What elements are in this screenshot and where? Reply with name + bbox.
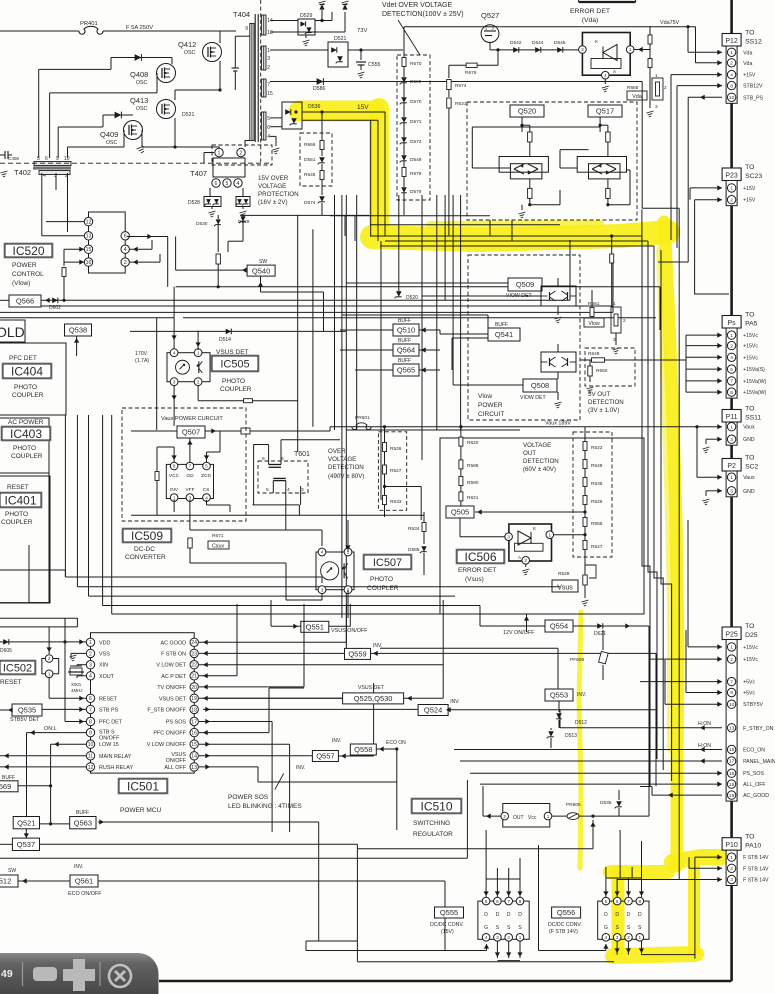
svg-text:2: 2 [623,318,626,323]
svg-text:IC507: IC507 [373,557,402,569]
svg-text:7: 7 [189,464,192,469]
svg-text:9: 9 [262,456,265,462]
svg-text:Q541: Q541 [495,330,513,339]
highlighted net wire [641,82,643,209]
svg-text:2: 2 [730,61,733,67]
svg-text:Q559: Q559 [348,650,366,659]
pin10 wire [51,743,86,745]
svg-text:D514: D514 [219,337,231,343]
svg-text:8: 8 [89,719,92,725]
svg-text:XOUT: XOUT [99,674,115,680]
svg-text:TO: TO [745,164,754,171]
IC502 box [0,660,36,675]
wire T407 left [204,152,214,154]
wire primary top [234,36,236,68]
highlight marker hook down [688,866,700,950]
svg-text:1: 1 [639,935,642,940]
svg-text:POWER MCU: POWER MCU [120,807,161,814]
svg-text:IC404: IC404 [11,364,43,378]
svg-text:PA5: PA5 [745,321,758,328]
T404 primary winding [250,23,254,140]
wire stub left Q566 [0,299,9,301]
IC501 pin 13 [190,763,198,771]
resistor R670 [402,58,406,67]
wire Q520 stub down [489,220,491,236]
svg-text:D528: D528 [188,200,200,206]
svg-text:R674: R674 [455,83,467,89]
svg-text:1: 1 [547,814,550,819]
svg-text:BUFF: BUFF [398,318,411,324]
T404 secondary winding 7-15 [261,79,266,97]
stair wire p23-ps [658,261,688,263]
svg-text:Q412: Q412 [178,40,196,49]
svg-text:K: K [533,526,536,531]
svg-text:+15Va(S): +15Va(S) [743,367,765,373]
svg-text:2: 2 [48,656,51,661]
svg-text:3: 3 [730,877,733,883]
wire Q412 drain [219,31,221,43]
wire verticals upper mid [297,215,299,452]
svg-text:COUPLER: COUPLER [1,519,33,526]
svg-text:Vlow: Vlow [478,393,492,400]
svg-text:D621: D621 [594,631,606,637]
svg-text:2: 2 [507,935,510,940]
svg-text:REGULATOR: REGULATOR [413,831,453,838]
svg-text:Q563: Q563 [74,818,92,827]
Q524 wires [203,708,418,710]
svg-text:Q510: Q510 [397,326,415,335]
IC509 bottom wires [173,500,175,512]
bottom long wires [642,954,695,956]
svg-text:LOW 15: LOW 15 [99,742,119,748]
svg-text:3: 3 [321,587,324,592]
svg-text:22: 22 [191,663,197,669]
wire to P12 pin2 [696,62,723,64]
svg-text:1: 1 [549,532,552,537]
ground near pin2 [71,652,86,654]
svg-text:COUPLER: COUPLER [220,386,252,393]
svg-text:23: 23 [191,651,197,657]
wire winding 4 ground [270,135,276,137]
svg-text:R628: R628 [558,571,570,577]
svg-text:F STB 14V: F STB 14V [743,866,769,872]
P12 connector [722,34,741,47]
IC501 pin 17 [190,717,198,725]
svg-text:4: 4 [237,181,240,187]
pin11 wire [0,755,86,757]
svg-text:STB_PS: STB_PS [743,95,763,101]
svg-text:INV.: INV. [450,699,459,705]
svg-text:V LOW ON/OFF: V LOW ON/OFF [147,742,187,748]
svg-text:1: 1 [48,671,51,676]
P25 wires [688,646,722,648]
zener D549 [401,155,407,161]
Ps connector [722,316,741,329]
resistor R533 [383,496,387,505]
svg-text:BUFF: BUFF [398,338,411,344]
Q558 out wire [379,746,384,751]
IC501 pin 22 [190,661,198,669]
error amp IC506 [509,524,552,561]
wire error amp out [634,49,650,51]
svg-text:5: 5 [205,464,208,469]
svg-text:Vaux: Vaux [743,425,755,431]
svg-text:ERROR DET: ERROR DET [458,567,496,574]
wire row 858 [0,857,467,859]
svg-text:2: 2 [492,27,494,31]
svg-text:ECO ON: ECO ON [386,740,406,746]
svg-text:19: 19 [191,696,197,702]
svg-text:(15V): (15V) [441,929,454,935]
svg-text:D535: D535 [600,800,612,806]
svg-text:10: 10 [729,95,735,101]
svg-text:Q525,Q530: Q525,Q530 [354,694,393,703]
svg-text:Vda75V: Vda75V [660,20,680,26]
svg-text:6: 6 [616,899,619,904]
svg-text:T407: T407 [190,169,207,178]
svg-text:AC GOOD: AC GOOD [161,640,187,646]
wire verticals mid-left [64,415,66,577]
svg-text:1: 1 [173,495,176,500]
resistor R527 [383,465,387,474]
svg-text:ALL OFF: ALL OFF [164,765,186,771]
svg-text:PHOTO: PHOTO [222,378,245,385]
svg-text:(Vsus): (Vsus) [465,576,484,583]
svg-text:19: 19 [729,793,735,799]
svg-text:D: D [638,912,642,918]
Q538 box [65,324,92,336]
Q508 pair [541,352,576,372]
svg-text:9: 9 [730,690,733,696]
svg-text:D574: D574 [304,200,316,206]
svg-text:569: 569 [0,782,11,791]
svg-text:1: 1 [730,186,733,192]
svg-text:Vda: Vda [632,94,642,100]
wires Vlow interconnect [346,282,508,284]
Vaux dashed box [122,408,246,521]
svg-text:VSUS DET: VSUS DET [159,696,187,702]
svg-text:4: 4 [730,72,733,78]
svg-text:8: 8 [730,390,733,396]
wire 12V row [380,647,558,649]
svg-text:D544: D544 [532,40,544,46]
svg-text:Q561: Q561 [75,877,93,886]
Q537 wires [0,843,12,845]
Vsus label [552,580,578,592]
svg-text:14: 14 [191,754,197,760]
svg-text:4: 4 [485,935,488,940]
IC501 label [118,778,168,794]
svg-text:21: 21 [191,674,197,680]
wires Q520 bottom [530,204,560,206]
svg-text:R526: R526 [591,499,603,505]
svg-text:+15Vc: +15Vc [743,645,758,651]
svg-text:D520: D520 [406,295,418,301]
svg-text:Vaux 189V: Vaux 189V [545,421,571,427]
svg-text:PF609: PF609 [570,657,584,663]
P10 connector [722,838,741,851]
wire gate stairs [38,69,40,158]
15V OVP dashed box [300,133,332,186]
pin8 wire [65,721,86,723]
svg-text:15: 15 [86,247,92,253]
svg-text:PFC ON/OFF: PFC ON/OFF [153,731,186,737]
svg-text:6: 6 [124,234,127,240]
svg-text:(60V ± 40V): (60V ± 40V) [523,466,556,473]
svg-text:17: 17 [191,719,197,725]
svg-text:16: 16 [191,730,197,736]
T404 secondary winding 14-13 [261,15,266,35]
svg-text:D579: D579 [410,189,422,195]
resistor R536 [583,478,587,487]
highlight marker band upper fringe [430,224,600,225]
wire to border [648,626,650,790]
svg-text:Q505: Q505 [451,508,469,517]
svg-text:13: 13 [86,234,92,240]
svg-text:TO: TO [745,312,754,319]
svg-text:6: 6 [215,181,218,187]
svg-text:7: 7 [730,679,733,685]
svg-text:IC502: IC502 [3,662,32,674]
IC506 label [456,549,505,564]
svg-text:GD: GD [186,473,194,479]
IC507 label [363,554,412,570]
svg-text:8: 8 [173,464,176,469]
svg-text:4: 4 [89,674,92,680]
svg-text:1: 1 [629,47,632,52]
wire row318 left [0,317,174,319]
svg-text:AC P DET: AC P DET [161,674,186,680]
svg-text:1: 1 [730,424,733,430]
dashed box Vdet OVP [397,55,430,200]
svg-text:RESET: RESET [99,696,118,702]
resistor R548 [583,460,587,469]
svg-text:LED BLINKING : 4TIMES: LED BLINKING : 4TIMES [228,803,302,810]
wire to P12 pin10 [688,96,722,98]
svg-text:IC501: IC501 [127,779,159,793]
IC520 pin 6 [121,232,129,240]
transistor pair cell [599,124,602,127]
svg-text:2: 2 [627,935,630,940]
svg-text:1: 1 [218,150,221,156]
wire top rail Vda [404,26,696,28]
svg-text:Q556: Q556 [557,908,575,917]
svg-text:ECO_ON: ECO_ON [743,748,765,754]
ground below R628 [584,585,586,598]
IC520 pin 15 [84,245,92,253]
svg-text:1: 1 [267,48,270,54]
wire left vertical 156 [156,318,158,430]
svg-text:1: 1 [655,73,658,78]
svg-text:AC_GOOD: AC_GOOD [743,793,769,799]
svg-text:P12: P12 [725,38,738,45]
svg-text:SS11: SS11 [745,415,761,422]
svg-text:GND: GND [743,489,755,495]
svg-text:4: 4 [267,134,270,140]
svg-text:12V ON/OFF: 12V ON/OFF [503,630,535,636]
right bus verticals [642,236,650,787]
resistor divider R665 [648,35,652,44]
wires Q520 rail left [472,167,510,169]
wire Q507 left [131,430,177,432]
resistor IC509 left [155,472,159,481]
svg-text:DC-DC: DC-DC [134,546,155,553]
svg-text:ECO ON/OFF: ECO ON/OFF [68,891,102,897]
toolbar close button [109,965,131,987]
svg-text:7: 7 [267,82,270,88]
svg-text:Caux: Caux [212,544,225,550]
diode D-gate mid [103,114,133,116]
svg-text:Q566: Q566 [16,297,34,306]
P2 connector [722,459,741,472]
svg-text:R589: R589 [467,463,479,469]
svg-text:9: 9 [245,26,248,32]
toolbar separator 2 [99,962,101,986]
IC501 pin 7 [86,705,94,713]
HOLD box [0,320,25,342]
svg-text:D521: D521 [182,112,195,118]
IC501 pin 23 [190,649,198,657]
transistor pair cell [520,124,523,127]
fuse box small [241,428,250,434]
ground below D529 [305,35,307,38]
svg-text:R536: R536 [591,481,603,487]
svg-text:D551: D551 [304,157,316,163]
svg-text:6: 6 [267,125,270,131]
IC401 group box [0,476,50,603]
svg-text:Q521: Q521 [17,818,35,827]
svg-text:COUPLER: COUPLER [12,392,44,399]
svg-text:1: 1 [730,333,733,339]
toolbar minus button [33,967,57,981]
svg-text:4: 4 [287,487,290,493]
svg-text:15: 15 [729,747,735,753]
Q561 wires [22,878,27,883]
svg-text:D542: D542 [510,40,522,46]
svg-text:Q537: Q537 [17,840,35,849]
Q554 box [545,620,573,632]
svg-text:3: 3 [655,104,658,109]
svg-text:Vdet OVER VOLTAGE: Vdet OVER VOLTAGE [382,2,452,9]
pin2 of error amp [602,71,610,79]
resistor R522 [583,442,587,451]
svg-text:PHOTO: PHOTO [14,384,37,391]
svg-text:Q520: Q520 [518,107,536,116]
svg-text:D529: D529 [300,13,313,19]
svg-text:(Vda): (Vda) [582,17,599,24]
svg-text:R671: R671 [212,533,224,539]
pin12 wire [0,766,86,768]
svg-text:Q524: Q524 [424,706,442,715]
FET1 gate feed [306,950,487,952]
svg-text:3: 3 [267,56,270,62]
IC520 pin 12 [84,217,92,225]
Q537 box [12,838,39,850]
wire Q538 up [76,336,78,356]
svg-text:15: 15 [191,742,197,748]
svg-text:Q551: Q551 [306,623,324,632]
svg-text:+15V: +15V [743,198,756,204]
svg-text:3: 3 [581,47,584,52]
FET2 gate feed [538,845,540,951]
Q535 box [12,704,42,716]
wire stub left [0,569,65,571]
svg-text:POWER: POWER [12,262,37,269]
svg-text:D: D [604,912,608,918]
svg-text:(1.7A): (1.7A) [135,358,149,364]
svg-text:INV.: INV. [577,692,586,698]
svg-text:+5Vc: +5Vc [743,691,755,697]
svg-text:X001: X001 [71,682,82,687]
svg-text:1: 1 [730,475,733,481]
IC501 pin 10 [86,740,94,748]
svg-text:ON/OFF: ON/OFF [99,736,120,742]
svg-text:1: 1 [613,301,616,306]
svg-text:CONVERTER: CONVERTER [125,554,166,561]
IC501 pin 19 [190,694,198,702]
svg-text:R590: R590 [467,480,479,486]
wires BUFF left [340,329,393,331]
svg-text:4: 4 [205,495,208,500]
svg-text:Vda: Vda [743,61,752,67]
IC501 pin 15 [190,740,198,748]
svg-text:ON:L: ON:L [44,726,57,732]
IC501 pin 2 [86,649,94,657]
svg-text:VFF: VFF [185,487,194,493]
svg-text:+15Va(W): +15Va(W) [743,390,766,396]
svg-text:(Vlow): (Vlow) [12,280,30,287]
IC507 opto [316,552,354,590]
svg-text:CIRCUIT: CIRCUIT [478,411,504,418]
svg-text:Q553: Q553 [550,691,568,700]
svg-text:512: 512 [0,877,11,886]
FET array 2 [598,901,649,939]
svg-text:Vaux: Vaux [743,475,755,481]
svg-text:Q558: Q558 [354,745,372,754]
svg-text:1: 1 [89,640,92,646]
IC520 right wires [130,248,152,250]
svg-text:TO: TO [745,455,754,462]
T404 secondary winding 5-6-4 [261,112,266,140]
big detect box [440,438,644,614]
Q505 box [446,506,474,518]
svg-text:R631: R631 [455,101,467,107]
svg-text:R533: R533 [390,499,402,505]
svg-text:4MHz: 4MHz [71,688,82,693]
svg-text:T402: T402 [14,168,31,177]
IC404 photocoupler group box [0,343,66,415]
svg-text:PROTECTION: PROTECTION [258,191,299,198]
svg-text:Q564: Q564 [397,346,415,355]
svg-text:12: 12 [88,765,94,771]
svg-text:PHOTO: PHOTO [5,511,28,518]
svg-text:4: 4 [605,935,608,940]
svg-text:2: 2 [124,260,127,266]
wire R661 feed from band [610,234,613,237]
P23 wires [690,187,722,189]
svg-text:OSC: OSC [184,50,195,56]
IC501 pin 12 [86,763,94,771]
svg-text:3: 3 [301,487,304,493]
IC520 label [4,243,53,258]
Q551 wires [270,600,272,626]
svg-text:2: 2 [664,85,667,90]
svg-text:13: 13 [729,726,735,732]
svg-text:12: 12 [86,219,92,225]
wire winding 5-6 [270,117,282,119]
svg-text:13: 13 [191,765,197,771]
IC520 chip body [89,212,126,273]
